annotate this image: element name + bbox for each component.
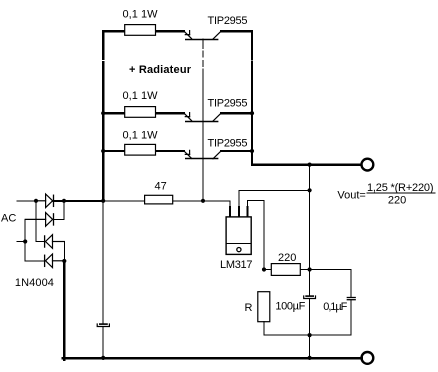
wire: output line to plus terminal [252, 163, 361, 165]
diode D1 1N4004 [36, 194, 54, 208]
wire: left rail solid below break to bridge junction [102, 69, 104, 201]
wire: Q3 collector to right rail [221, 150, 252, 152]
terminal: output plus [362, 159, 374, 171]
wire: AC1 node vertical (D1 anode / D3 cathode) [36, 201, 45, 242]
resistor R5 220 [264, 269, 310, 271]
wire: collector rail solid down to output line [251, 69, 253, 165]
wire: Q2 collector to right rail [221, 112, 252, 114]
wire: collector rail dash-dot break [251, 56, 253, 67]
svg-text:0,1 1W: 0,1 1W [123, 90, 159, 102]
wire: left rail below filter cap to ground rail [102, 327, 104, 358]
wire: Q1 collector to right rail [221, 30, 252, 32]
diode D4 1N4004 [45, 254, 65, 268]
wire: base node to LM317 IN pin [203, 201, 230, 207]
wire: main output vertical line [309, 165, 311, 296]
resistor R2 0,1 1W [125, 107, 156, 118]
transistor Q2 TIP2955 [184, 113, 221, 122]
wire: bridge negative line down and ground rail to minus terminal (thick) [63, 261, 66, 360]
svg-text:47: 47 [155, 181, 167, 193]
wire: base line dash-dot break [202, 51, 204, 66]
wire: D1 cathode to left rail (thick) [54, 200, 104, 202]
resistor R3 0,1 1W [125, 144, 156, 155]
resistor R6 R (adjust) [258, 292, 270, 322]
wire: left rail thin section down to filter cap [102, 201, 104, 324]
svg-text:TIP2955: TIP2955 [208, 137, 248, 149]
svg-text:100µF: 100µF [275, 301, 305, 313]
label output formula Vout [337, 182, 434, 206]
svg-text:0,1 1W: 0,1 1W [123, 9, 159, 21]
wire: AC input stub top [17, 200, 36, 202]
wire: emitter row 1 (rail to R1 to Q1) [103, 30, 184, 32]
capacitor C1 filter (on left rail) [97, 324, 109, 327]
wire: output node right to 0,1uF branch [310, 270, 351, 298]
diode D2 1N4004 [25, 213, 53, 227]
resistor R4 47 [145, 195, 173, 204]
op-amp U1 LM317 regulator package [226, 207, 251, 254]
wire: left positive rail (top section, thick) [102, 31, 104, 53]
resistor R1 0,1 1W [125, 25, 156, 36]
wire: right collector rail (thick) [251, 31, 253, 54]
wire: 47 ohm line from rail to LM317 input [103, 200, 203, 202]
wire: emitter row 3 (rail to R3 to Q3) [103, 150, 184, 152]
capacitor C3 0,1uF [347, 298, 355, 300]
svg-text:1,25 *(R+220): 1,25 *(R+220) [367, 182, 434, 194]
svg-text:+ Radiateur: + Radiateur [129, 64, 192, 76]
svg-text:0,1µF: 0,1µF [323, 301, 347, 313]
transistor Q1 TIP2955 [184, 31, 221, 40]
terminal: output minus [362, 352, 374, 364]
svg-text:1N4004: 1N4004 [15, 277, 54, 289]
wire: base line solid below break [202, 69, 204, 201]
wire: emitter row 2 (rail to R2 to Q2) [103, 112, 184, 114]
wire: D2 cathode up to D1 cathode junction [54, 201, 65, 220]
wire: left rail dash-dot break (radiator repeat) [102, 56, 104, 67]
transistor Q3 TIP2955 [184, 150, 221, 158]
diode D3 1N4004 [45, 235, 65, 249]
svg-text:220: 220 [388, 194, 406, 206]
wire: D3 anode down to D4 anode junction [63, 242, 65, 262]
capacitor C2 100uF [304, 296, 316, 299]
svg-text:0,1 1W: 0,1 1W [123, 130, 159, 142]
wire: 0,1uF bottom to ground bus [350, 300, 352, 335]
wire: R bottom to ground bus horizontal [264, 322, 351, 335]
wire: LM317 ADJ pin to divider [247, 201, 264, 270]
node: junction dots [23, 111, 312, 360]
svg-text:Vout=: Vout= [337, 189, 365, 201]
svg-text:TIP2955: TIP2955 [208, 98, 248, 110]
wire: common base line from Q1 down to node at 47 ohm output [202, 39, 204, 49]
wire: AC2 node vertical (D2 anode / D4 cathode) [17, 219, 45, 260]
svg-text:TIP2955: TIP2955 [208, 15, 248, 27]
svg-text:220: 220 [278, 252, 296, 264]
svg-text:LM317: LM317 [220, 259, 253, 271]
svg-text:AC: AC [1, 213, 16, 225]
svg-text:R: R [245, 302, 253, 314]
wire: LM317 OUT pin up and right to output node [239, 190, 310, 207]
